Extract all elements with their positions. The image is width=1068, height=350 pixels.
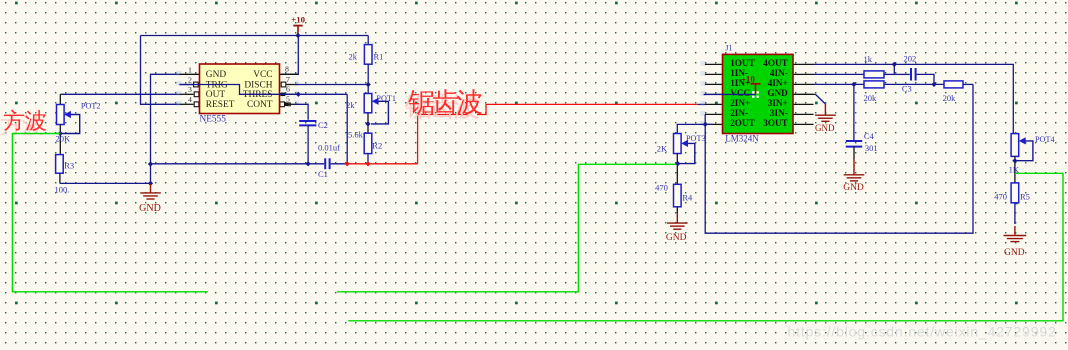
wire 4OUT rail <box>814 64 1014 133</box>
junction C4 tap <box>851 82 856 87</box>
label sawtooth wave text <box>405 95 431 119</box>
wire THRES down to C1 rail <box>346 94 348 164</box>
wire C4 drop <box>853 84 855 140</box>
wire CONT to C2 <box>295 104 308 120</box>
ne555 U1 pin6 stub <box>286 93 298 95</box>
wire C3 left lead <box>894 73 910 75</box>
wire rail left vertical to RESET <box>141 36 181 105</box>
ne555 U1 pin3 stub <box>180 93 194 95</box>
ne555 U1 pin5 stub <box>286 103 298 105</box>
wire TRIG-THRES tie through chip <box>179 85 347 95</box>
wire red rail R2 bottom <box>347 163 417 165</box>
potentiometer POT3 <box>674 134 682 154</box>
resistor R4 <box>674 184 682 207</box>
svg-text:TRIG: TRIG <box>206 80 228 90</box>
wire DISCH to R1/POT1 column <box>295 84 368 86</box>
junction 2OUT node <box>703 122 708 127</box>
wire 2IN- feedback down-right <box>705 84 973 233</box>
wire 2OUT to POT3 top <box>677 124 712 133</box>
svg-text:202: 202 <box>904 53 917 63</box>
wire green net sawtooth-buffer output <box>337 164 676 291</box>
wire C1 to red node <box>331 163 348 165</box>
potentiometer POT2 <box>59 94 61 104</box>
op timer NE555 U1 body <box>200 64 280 114</box>
wire GND pin diagonal <box>793 93 816 95</box>
svg-text:J1: J1 <box>725 43 732 52</box>
svg-text:5.6k: 5.6k <box>348 130 364 140</box>
svg-text:6: 6 <box>286 85 290 94</box>
svg-text:470: 470 <box>655 183 668 193</box>
lm324 J1 right pin stubs <box>793 63 814 65</box>
svg-text:R2: R2 <box>372 141 382 151</box>
resistor R 1k <box>864 71 884 78</box>
ground GND5 under R5 <box>1004 226 1027 242</box>
svg-text:1OUT: 1OUT <box>730 58 755 68</box>
junction POT2 bottom <box>58 131 63 136</box>
svg-text:LM324N: LM324N <box>725 134 759 144</box>
svg-text:0.01uf: 0.01uf <box>318 142 340 152</box>
junction R2 bottom red <box>365 161 370 166</box>
wire C3 right lead down <box>917 74 934 84</box>
svg-text:OUT: OUT <box>206 90 226 100</box>
ground GND2 under R4 <box>667 214 688 230</box>
junction POT3 bottom <box>675 161 680 166</box>
ground GND1 symbol <box>140 183 161 199</box>
svg-text:R4: R4 <box>682 192 693 202</box>
label square wave text <box>1 114 21 135</box>
wire red step under label <box>477 104 698 114</box>
capacitor C2 <box>299 121 316 125</box>
junction +10 rail <box>295 33 300 38</box>
svg-text:2OUT: 2OUT <box>730 118 755 128</box>
svg-text:R5: R5 <box>1020 192 1030 202</box>
ghost marks LM324 left pins <box>701 61 706 66</box>
svg-text:3OUT: 3OUT <box>763 118 788 128</box>
wire 1k to feedback riser <box>884 73 894 75</box>
potentiometer POT1 <box>364 94 372 113</box>
junction THRES <box>296 92 301 97</box>
svg-text:GND: GND <box>843 183 864 193</box>
svg-text:RESET: RESET <box>206 100 235 110</box>
svg-text:20K: 20K <box>56 133 72 143</box>
ne555 U1 pin2 stub <box>179 84 193 86</box>
svg-text:4: 4 <box>188 95 192 104</box>
svg-text:4IN-: 4IN- <box>770 68 788 78</box>
svg-text:2: 2 <box>188 75 192 84</box>
svg-text:R1: R1 <box>374 52 384 62</box>
lm324 J1 left pin stubs <box>705 63 723 65</box>
wire green output net <box>348 173 1063 320</box>
wire 20k right to feedback <box>963 83 973 85</box>
svg-text:2k: 2k <box>346 100 355 110</box>
svg-text:GND: GND <box>666 233 687 243</box>
potentiometer POT4 <box>1011 134 1019 157</box>
svg-text:4IN+: 4IN+ <box>768 78 788 88</box>
junction POT1 wiper node <box>365 121 370 126</box>
resistor R3 <box>56 155 64 174</box>
ground GND4 under C4 <box>844 160 865 181</box>
junction R3-GND node <box>148 181 153 186</box>
resistor R1 <box>367 36 369 45</box>
svg-text:+10: +10 <box>291 15 305 25</box>
svg-text:GND: GND <box>139 203 161 214</box>
svg-text:DISCH: DISCH <box>244 80 272 90</box>
svg-text:https://blog.csdn.net/weixin_4: https://blog.csdn.net/weixin_42729992 <box>788 325 1057 341</box>
svg-text:470: 470 <box>994 192 1007 202</box>
resistor R 20k right <box>944 81 963 88</box>
svg-text:GND: GND <box>767 88 788 98</box>
wire +10 top rail <box>141 35 369 37</box>
svg-text:20k: 20k <box>864 93 878 103</box>
ne555 U1 pin7 stub <box>286 84 298 86</box>
junction C1 rail at ground vertical <box>148 161 153 166</box>
svg-text:3IN+: 3IN+ <box>768 98 788 108</box>
ne555 U1 pin8 stub <box>280 73 298 75</box>
svg-text:GND: GND <box>1004 248 1025 258</box>
opamp LM324N J1 body <box>723 54 794 133</box>
svg-text:4OUT: 4OUT <box>763 58 788 68</box>
svg-text:2k: 2k <box>349 52 358 62</box>
wire VCC overlay <box>704 93 756 95</box>
svg-text:301: 301 <box>865 143 878 153</box>
power +10 at VCC pin <box>751 84 761 95</box>
junction DISCH node <box>366 82 371 87</box>
wire between 20k resistors <box>884 83 944 85</box>
capacitor C1 <box>325 158 329 169</box>
junction 4OUT feedback node <box>892 62 897 67</box>
wire OUT pin3 to POT2 <box>60 93 180 95</box>
svg-text:POT1: POT1 <box>376 94 396 103</box>
wire green net POT2 output <box>12 134 208 292</box>
ghost marks NE555 left pins <box>177 71 182 76</box>
wire red sawtooth into 2IN+ <box>698 103 705 105</box>
svg-text:POT2: POT2 <box>81 102 101 111</box>
capacitor C4 <box>846 141 862 147</box>
wire red riser to sawtooth label <box>418 115 468 164</box>
svg-text:VCC: VCC <box>730 88 750 98</box>
svg-text:C4: C4 <box>864 131 875 141</box>
wire C4 bottom stem <box>853 147 855 160</box>
svg-text:+10: +10 <box>741 74 756 84</box>
svg-text:5: 5 <box>286 95 290 104</box>
wire 4IN- to 1k <box>814 73 865 75</box>
power +10 symbol P1 <box>293 26 302 36</box>
svg-text:CONT: CONT <box>247 100 273 110</box>
svg-text:1k: 1k <box>864 54 873 64</box>
svg-text:3IN-: 3IN- <box>770 108 788 118</box>
svg-text:7: 7 <box>286 75 290 84</box>
svg-text:2IN+: 2IN+ <box>730 98 750 108</box>
svg-text:POT3: POT3 <box>686 134 706 143</box>
wire GND pin1 to ground <box>151 74 181 183</box>
svg-text:R3: R3 <box>64 161 74 171</box>
svg-text:GND: GND <box>206 70 227 80</box>
junction POT4 bottom <box>1012 158 1017 163</box>
svg-text:GND: GND <box>815 123 835 133</box>
svg-text:100.: 100. <box>55 185 70 195</box>
ground GND3 at LM324 <box>815 104 836 121</box>
junction C2 bottom <box>306 161 311 166</box>
svg-text:POT4: POT4 <box>1035 135 1055 144</box>
capacitor C3 <box>911 68 916 81</box>
resistor R5 <box>1011 183 1019 203</box>
svg-text:2K: 2K <box>657 143 668 153</box>
svg-text:3: 3 <box>188 85 192 94</box>
wire VCC pin8 drop <box>281 36 298 75</box>
junction C3-20k node <box>931 82 936 87</box>
junction sawtooth node 1 <box>345 161 350 166</box>
ghost marks NE555 right pins <box>295 81 300 86</box>
wire 4IN+ to 20k <box>814 83 865 85</box>
resistor R2 <box>364 133 372 153</box>
svg-text:VCC: VCC <box>253 70 272 80</box>
svg-text:NE555: NE555 <box>200 115 227 125</box>
svg-text:2IN-: 2IN- <box>730 108 748 118</box>
svg-text:THRES: THRES <box>243 90 273 100</box>
svg-text:8: 8 <box>285 65 289 74</box>
ne555 U1 pin4 stub <box>180 103 194 105</box>
svg-text:C1: C1 <box>318 169 328 179</box>
ne555 U1 pin1 stub <box>179 73 199 75</box>
svg-text:1: 1 <box>188 65 192 74</box>
svg-text:C2: C2 <box>318 120 328 130</box>
wire C1 rail left segment <box>151 163 325 165</box>
no-erc white marks at VCC <box>752 91 754 93</box>
resistor R 20k left <box>864 81 884 88</box>
svg-text:20k: 20k <box>943 93 957 103</box>
